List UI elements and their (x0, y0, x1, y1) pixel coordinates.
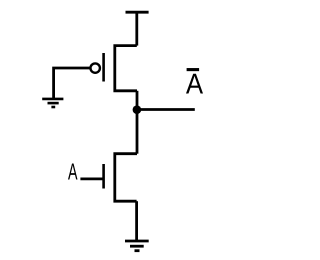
wire NMOS gate input (80, 177, 103, 180)
ground at NMOS source (125, 241, 149, 251)
wire PMOS gate to ground (54, 68, 91, 99)
transistor Q2 NMOS gate bar (102, 164, 105, 189)
transistor Q2 NMOS channel/drain/source (115, 154, 137, 202)
node output junction (133, 105, 142, 114)
transistor Q1 PMOS channel/source/drain (115, 46, 137, 91)
label A input (68, 163, 78, 179)
wire VDD to PMOS source (135, 12, 138, 45)
transistor Q1 PMOS gate bar (102, 53, 105, 82)
power VDD rail (126, 11, 149, 14)
ground at PMOS gate (42, 99, 63, 107)
transistor Q1 PMOS gate bubble (91, 63, 100, 72)
wire node to NMOS drain (136, 110, 139, 154)
label A-bar output (186, 70, 203, 94)
wire PMOS drain to node (136, 91, 139, 110)
wire NMOS source to ground (135, 201, 138, 241)
wire output (137, 108, 195, 111)
